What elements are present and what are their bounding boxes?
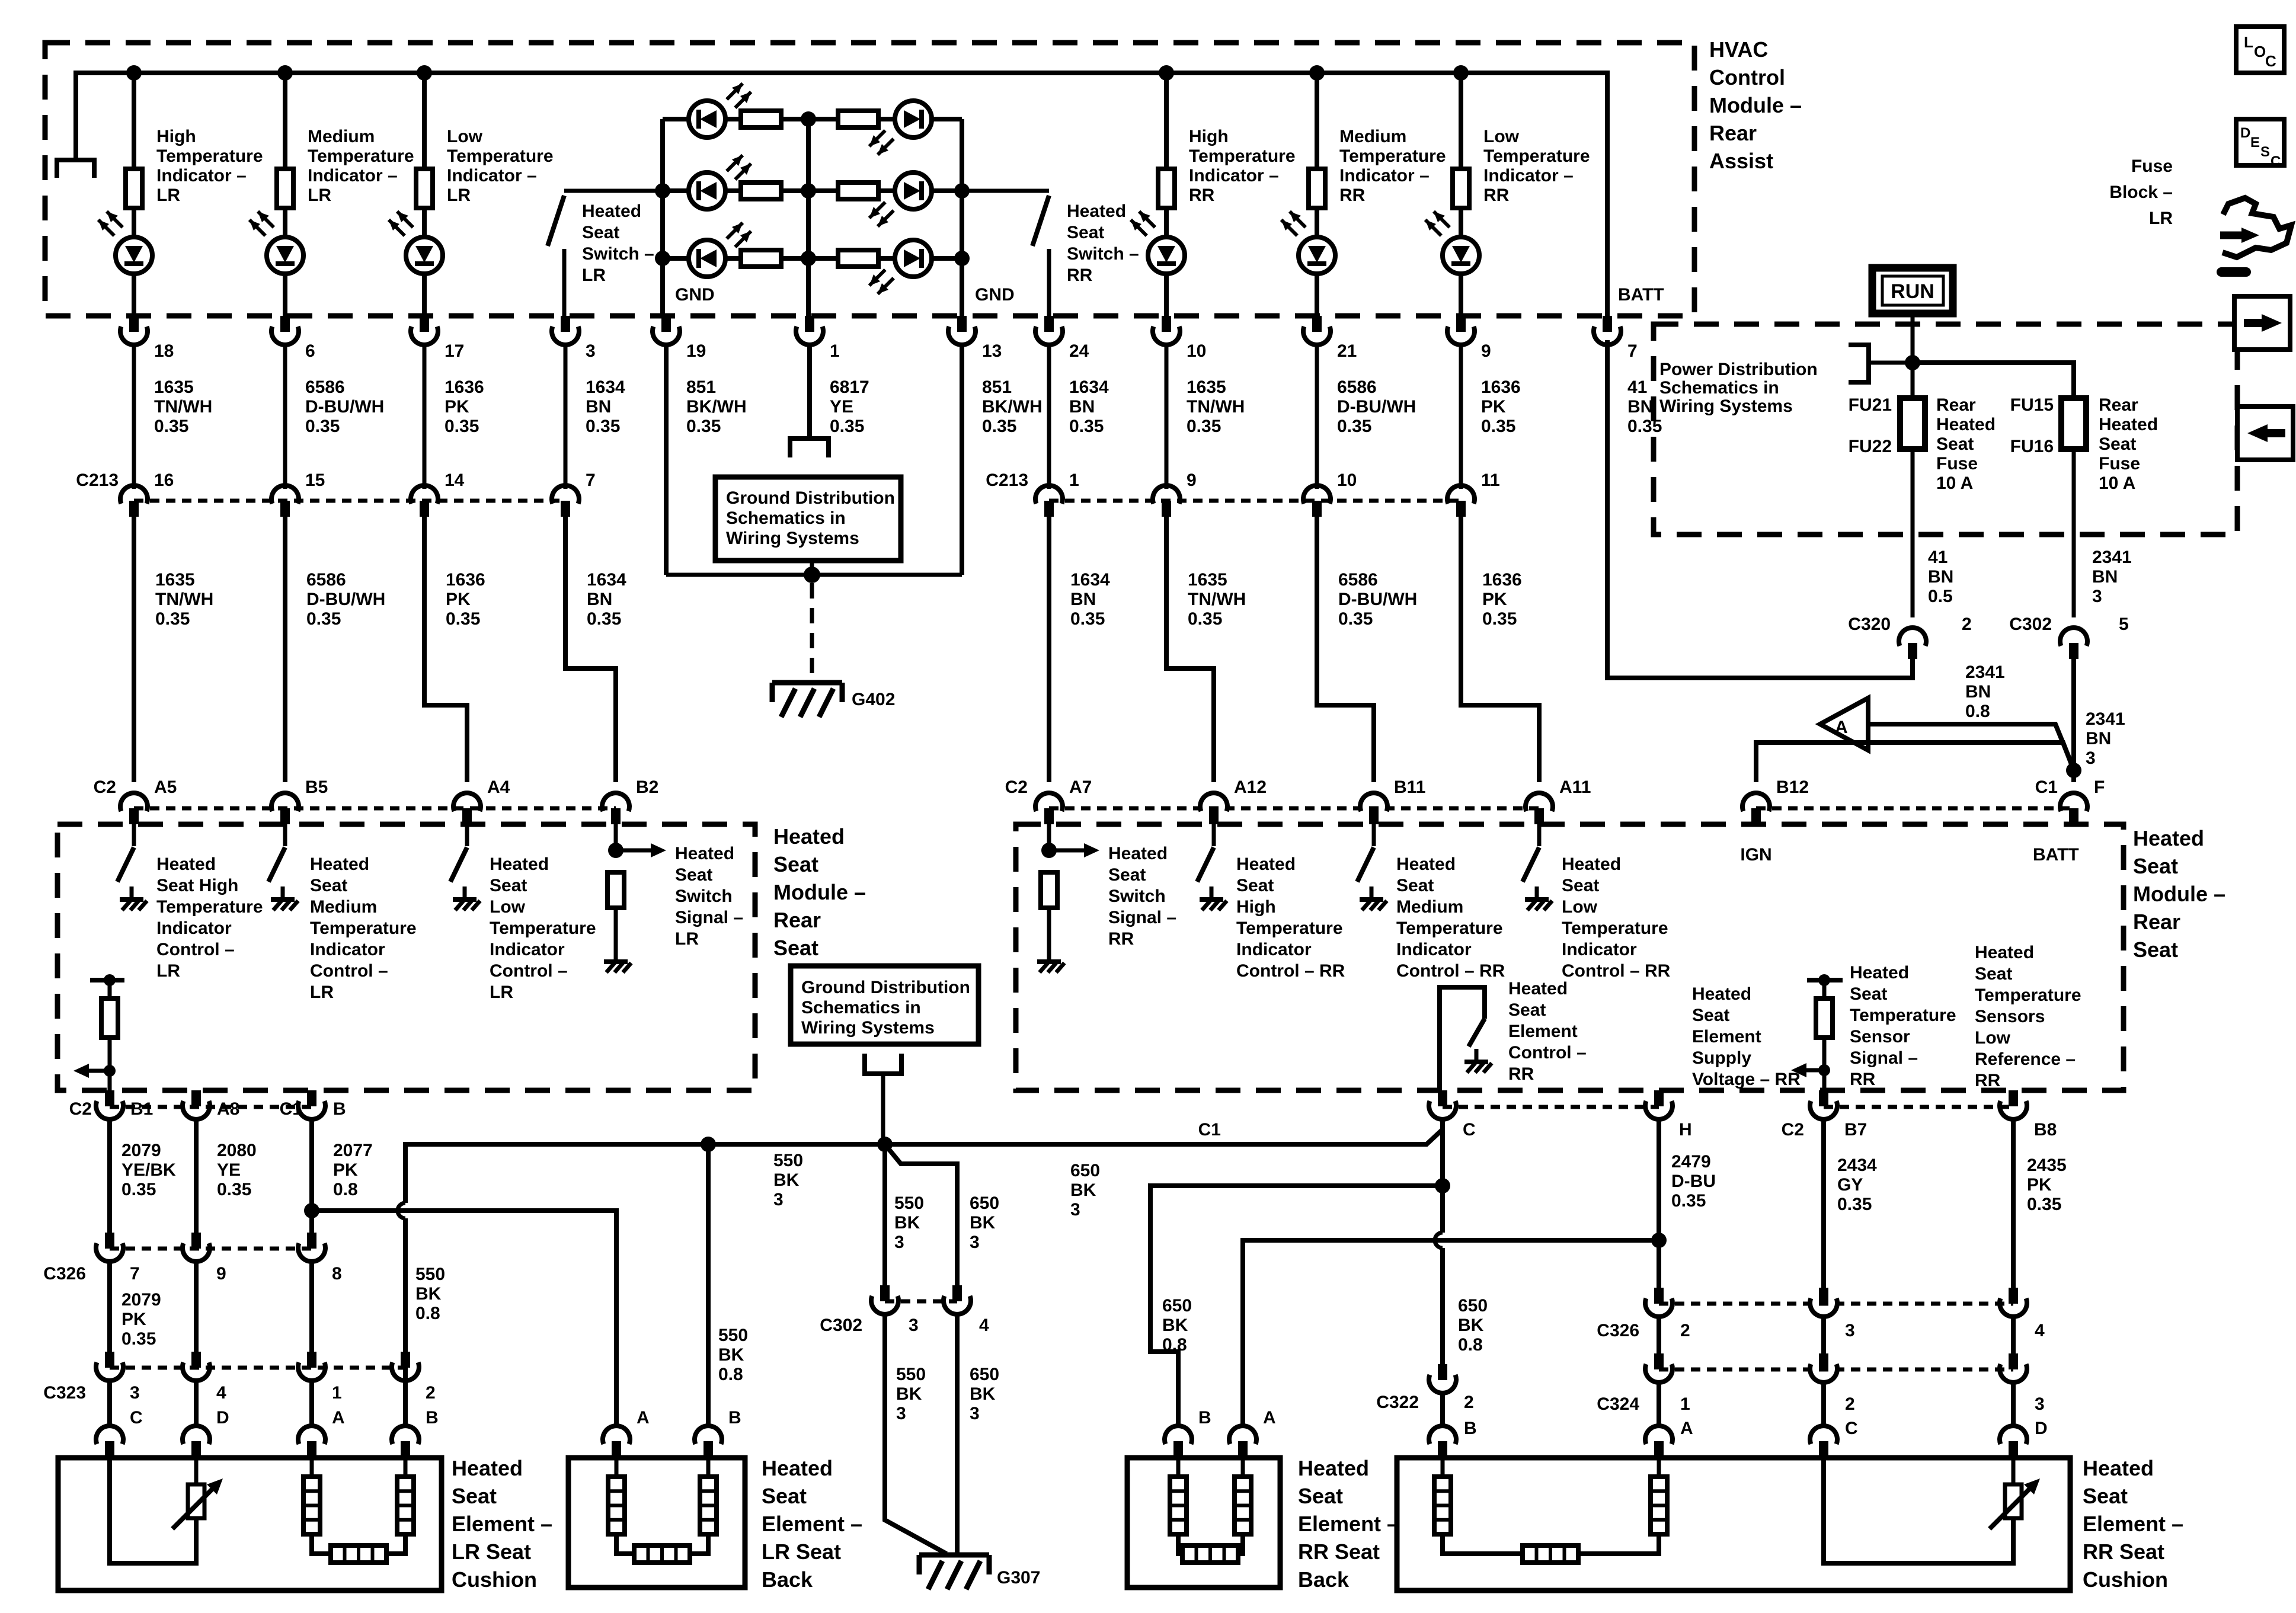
C323 pin 4 connector [191, 1352, 201, 1368]
svg-text:0.35: 0.35 [1187, 417, 1221, 436]
svg-text:550: 550 [718, 1326, 748, 1345]
wire 550 BK 3 to C302-3 [882, 1144, 887, 1285]
svg-text:PK: PK [2027, 1175, 2052, 1195]
svg-text:Schematics in: Schematics in [1659, 378, 1779, 398]
svg-text:650: 650 [1458, 1296, 1488, 1316]
Heated Seat High Temperature Indicator Control – RR switch [1212, 824, 1216, 846]
svg-text:2079: 2079 [121, 1141, 161, 1160]
wire 41 BN from pin7 to C320 [1607, 340, 1913, 678]
svg-text:1: 1 [332, 1383, 342, 1403]
wire RUN to fuses [1911, 313, 1915, 398]
Heated Seat Low Temperature Indicator Control – RR switch [1537, 824, 1542, 846]
svg-text:650: 650 [970, 1193, 999, 1213]
svg-text:17: 17 [445, 341, 464, 361]
svg-text:Heated: Heated [1067, 201, 1126, 221]
svg-text:Heated: Heated [582, 201, 641, 221]
LED row left y=436 [663, 256, 689, 261]
temp sensor chain left module [90, 978, 124, 982]
wire from C213 x=2465 to module connector x=2597 [1461, 517, 1539, 782]
svg-text:Seat: Seat [1067, 223, 1104, 242]
svg-text:Temperature: Temperature [1396, 918, 1503, 938]
svg-text:Cushion: Cushion [2083, 1567, 2168, 1592]
svg-text:A: A [637, 1408, 650, 1428]
svg-text:Wiring Systems: Wiring Systems [726, 529, 859, 548]
svg-text:Switch: Switch [675, 886, 733, 906]
svg-text:D: D [2240, 125, 2250, 141]
svg-text:Module –: Module – [773, 880, 866, 904]
svg-text:Fuse: Fuse [1936, 454, 1978, 473]
svg-text:Indicator: Indicator [1562, 940, 1637, 959]
svg-text:Indicator: Indicator [490, 940, 565, 959]
bottom output dotted link left [110, 1105, 312, 1109]
C320 pin 2 connector [1899, 628, 1926, 646]
module connector pin B5 [271, 793, 299, 811]
svg-text:550: 550 [894, 1193, 924, 1213]
element pin B connector [403, 1379, 408, 1428]
node bus junction x=1968 [1159, 65, 1174, 81]
C326 pin 9 connector [191, 1233, 201, 1249]
svg-text:BK/WH: BK/WH [982, 397, 1043, 417]
svg-text:LR: LR [156, 961, 180, 981]
svg-text:Seat: Seat [1975, 964, 2012, 984]
C326 pin 7 connector [105, 1233, 114, 1249]
bottom output dotted link right 1 [1443, 1105, 1659, 1109]
svg-text:13: 13 [982, 341, 1002, 361]
svg-text:3: 3 [586, 341, 596, 361]
svg-text:0.5: 0.5 [1928, 587, 1953, 606]
svg-text:0.35: 0.35 [587, 609, 621, 629]
svg-text:Low: Low [1975, 1028, 2011, 1048]
svg-text:Heated: Heated [452, 1456, 523, 1480]
svg-text:2080: 2080 [217, 1141, 257, 1160]
svg-text:Heated: Heated [1508, 979, 1568, 998]
svg-text:Medium: Medium [1396, 897, 1463, 917]
svg-text:0.35: 0.35 [982, 417, 1016, 436]
svg-text:BATT: BATT [1618, 285, 1664, 305]
svg-text:0.8: 0.8 [415, 1304, 440, 1323]
module output connector pin B8 [2009, 1090, 2018, 1106]
Heated Seat Medium Temperature Indicator Control – RR switch [1372, 824, 1376, 846]
Low Temperature Indicator – RR resistor [1459, 73, 1463, 169]
svg-text:Heated: Heated [156, 854, 216, 874]
svg-text:1635: 1635 [155, 570, 195, 590]
C322 pin 2 connector [1438, 1364, 1447, 1380]
svg-text:Indicator: Indicator [1396, 940, 1472, 959]
svg-text:A4: A4 [487, 777, 510, 797]
C2 dotted link right [1049, 806, 1539, 811]
module connector pin A4 [453, 793, 481, 811]
svg-text:C213: C213 [76, 471, 119, 490]
svg-text:2: 2 [1962, 615, 1972, 634]
Heated Seat Switch Signal – RR chain [1047, 824, 1051, 850]
heated seat switch LED array middle wire [806, 119, 811, 316]
svg-text:3: 3 [130, 1383, 140, 1403]
svg-text:Block –: Block – [2109, 183, 2173, 202]
svg-text:6817: 6817 [830, 377, 869, 397]
Power Distribution bracket [1849, 345, 1869, 382]
svg-text:Seat: Seat [1298, 1484, 1343, 1508]
svg-text:C: C [1845, 1419, 1858, 1438]
svg-text:BK: BK [773, 1170, 800, 1190]
svg-text:Indicator –: Indicator – [447, 166, 537, 185]
svg-text:BN: BN [1069, 397, 1095, 417]
svg-text:650: 650 [1070, 1161, 1100, 1180]
svg-text:PK: PK [333, 1160, 358, 1180]
svg-text:Signal –: Signal – [675, 908, 743, 927]
ground box bracket bottom [865, 1054, 901, 1074]
svg-text:BN: BN [587, 590, 612, 609]
svg-text:Heated: Heated [1236, 854, 1296, 874]
svg-text:BN: BN [1070, 590, 1096, 609]
wires C326 to C323 [107, 1260, 112, 1352]
svg-text:Seat: Seat [490, 876, 527, 895]
LED row left y=201 [663, 117, 689, 121]
C324 dashed link [1659, 1368, 2013, 1372]
svg-text:LR: LR [156, 185, 180, 205]
Medium Temperature Indicator – RR resistor [1315, 73, 1319, 169]
svg-text:Low: Low [490, 897, 526, 917]
svg-text:High: High [156, 127, 196, 146]
RR cushion thermistor and wiring [2005, 1484, 2022, 1518]
svg-text:Element –: Element – [1298, 1512, 1399, 1536]
svg-text:0.35: 0.35 [1837, 1195, 1872, 1214]
C302 pin 3 connector [880, 1285, 890, 1301]
wire A triangle to junction [1868, 724, 2074, 769]
svg-text:Switch –: Switch – [1067, 244, 1139, 264]
HVAC connector pin 6 [280, 316, 290, 332]
svg-text:PK: PK [445, 397, 469, 417]
svg-text:Low: Low [447, 127, 483, 146]
C213 pin 1 connector [1047, 343, 1051, 489]
svg-text:8: 8 [332, 1264, 342, 1284]
HVAC Control Module - Rear Assist dashed box [45, 43, 1694, 316]
svg-text:21: 21 [1337, 341, 1357, 361]
svg-text:10: 10 [1337, 471, 1357, 490]
svg-text:Supply: Supply [1692, 1048, 1751, 1068]
svg-text:650: 650 [1162, 1296, 1192, 1316]
svg-text:0.8: 0.8 [718, 1365, 743, 1384]
module output connector pin C [1438, 1090, 1447, 1106]
LR seat back element pin A connector [603, 1426, 630, 1444]
C302 dashed link bottom [885, 1300, 957, 1304]
RR seat back element pin B connector [1165, 1426, 1192, 1444]
svg-text:0.8: 0.8 [1458, 1335, 1483, 1355]
svg-text:Fuse: Fuse [2099, 454, 2140, 473]
svg-text:1: 1 [1069, 471, 1079, 490]
svg-text:RR Seat: RR Seat [2083, 1540, 2164, 1564]
svg-text:LR: LR [308, 185, 331, 205]
svg-text:Control –: Control – [156, 940, 235, 959]
svg-text:0.35: 0.35 [2027, 1195, 2061, 1214]
C2 dotted link left [134, 806, 616, 811]
svg-text:YE: YE [217, 1160, 241, 1180]
svg-text:Temperature: Temperature [1236, 918, 1343, 938]
Heated Seat Module – Rear Seat right dashed box [1016, 824, 2124, 1090]
svg-text:Element –: Element – [762, 1512, 862, 1536]
wire 2341 BN from C302-5 down [2071, 659, 2076, 782]
module connector pin B12 [1742, 793, 1770, 811]
svg-text:3: 3 [2092, 587, 2102, 606]
svg-text:Ground Distribution: Ground Distribution [801, 978, 970, 997]
svg-text:3: 3 [2086, 748, 2096, 768]
svg-text:G402: G402 [852, 690, 895, 709]
wire 550 BK 0.8 to LR seat back A [312, 1211, 616, 1428]
element pin D connector RR [2011, 1381, 2016, 1428]
svg-text:A11: A11 [1559, 777, 1591, 797]
svg-text:TN/WH: TN/WH [1187, 397, 1245, 417]
svg-text:B: B [728, 1408, 741, 1428]
svg-text:D: D [2035, 1419, 2048, 1438]
svg-text:Seat: Seat [1108, 865, 1146, 885]
svg-text:Seat: Seat [1562, 876, 1599, 895]
svg-text:Temperature: Temperature [156, 897, 263, 917]
wire from C213 x=954 to module connector x=1039 [565, 517, 616, 782]
svg-text:0.35: 0.35 [1671, 1191, 1706, 1211]
svg-text:LR Seat: LR Seat [762, 1540, 841, 1564]
node bus junction x=716 [417, 65, 432, 81]
LR seat back element pin B connector [695, 1426, 722, 1444]
svg-text:Medium: Medium [310, 897, 377, 917]
svg-text:BATT: BATT [2033, 845, 2079, 865]
svg-text:1: 1 [1680, 1394, 1690, 1414]
wire C302-3 to G307 [885, 1313, 946, 1554]
svg-text:0.35: 0.35 [155, 609, 190, 629]
svg-text:15: 15 [305, 471, 325, 490]
svg-text:Seat High: Seat High [156, 876, 238, 895]
svg-text:550: 550 [773, 1151, 803, 1170]
svg-text:D: D [216, 1408, 229, 1428]
fuse FU21/FU22 Rear Heated Seat Fuse 10 A [1900, 398, 1925, 449]
svg-text:Wiring Systems: Wiring Systems [1659, 396, 1793, 416]
svg-text:Temperature: Temperature [1850, 1006, 1956, 1025]
svg-text:5: 5 [2119, 615, 2129, 634]
svg-text:RR: RR [1483, 185, 1510, 205]
svg-text:A12: A12 [1234, 777, 1267, 797]
svg-text:2: 2 [1680, 1321, 1690, 1340]
C213 pin 16 connector [132, 343, 136, 489]
C326 right pin 3 connector [1819, 1288, 1828, 1304]
C213 pin 9 connector [1165, 343, 1169, 489]
svg-text:550: 550 [415, 1265, 445, 1284]
LR cushion heating element bars [303, 1477, 320, 1534]
wire from C213 x=226 to module connector x=226 [132, 517, 136, 782]
svg-text:TN/WH: TN/WH [1188, 590, 1246, 609]
svg-text:C1: C1 [1198, 1120, 1221, 1140]
svg-text:Seat: Seat [1850, 984, 1887, 1004]
node G402 junction [804, 567, 820, 583]
svg-text:C: C [2271, 153, 2281, 169]
svg-text:Seat: Seat [582, 223, 619, 242]
svg-text:YE: YE [830, 397, 853, 417]
svg-text:0.35: 0.35 [306, 609, 341, 629]
svg-text:2435: 2435 [2027, 1156, 2067, 1175]
element pin A connector RR [1657, 1381, 1661, 1428]
C213 pin 15 connector [283, 343, 287, 489]
svg-text:Heated: Heated [1108, 844, 1168, 863]
svg-text:0.35: 0.35 [1627, 417, 1662, 436]
svg-text:41: 41 [1627, 377, 1647, 397]
svg-text:Sensors: Sensors [1975, 1007, 2045, 1026]
svg-text:0.35: 0.35 [217, 1180, 251, 1199]
svg-text:FU16: FU16 [2010, 437, 2054, 456]
svg-text:Seat: Seat [1236, 876, 1274, 895]
top supply bus wire [76, 73, 1607, 316]
svg-text:Seat: Seat [2099, 434, 2136, 454]
svg-text:6586: 6586 [306, 570, 346, 590]
svg-text:S: S [2260, 144, 2270, 160]
svg-text:B11: B11 [1394, 777, 1425, 797]
svg-text:0.8: 0.8 [333, 1180, 358, 1199]
svg-text:B7: B7 [1844, 1120, 1867, 1140]
svg-text:Heated: Heated [310, 854, 369, 874]
svg-text:Low: Low [1483, 127, 1520, 146]
svg-text:2341: 2341 [2086, 709, 2125, 729]
C213 dashed link left [134, 499, 565, 503]
svg-text:Seat: Seat [2083, 1484, 2128, 1508]
C326 pin 8 connector [307, 1233, 316, 1249]
svg-text:Schematics in: Schematics in [726, 508, 846, 528]
svg-text:Seat: Seat [1508, 1000, 1546, 1020]
svg-text:2079: 2079 [121, 1290, 161, 1310]
C323 pin 1 connector [307, 1352, 316, 1368]
svg-text:A: A [1835, 718, 1848, 737]
wire junction to IGN B12 [1756, 743, 2074, 782]
svg-text:0.35: 0.35 [830, 417, 864, 436]
svg-text:2: 2 [426, 1383, 436, 1403]
svg-text:Heated: Heated [1396, 854, 1456, 874]
HVAC connector pin 18 [129, 316, 139, 332]
svg-text:Indicator –: Indicator – [1339, 166, 1430, 185]
svg-text:9: 9 [1187, 471, 1197, 490]
svg-text:Indicator: Indicator [156, 918, 232, 938]
svg-text:BN: BN [1928, 567, 1953, 587]
svg-text:Element: Element [1508, 1022, 1578, 1041]
wire ground box to bus [881, 1074, 885, 1144]
svg-text:3: 3 [909, 1316, 919, 1335]
HVAC connector pin 9 [1456, 316, 1466, 332]
svg-text:HVAC: HVAC [1709, 37, 1768, 62]
Heated Seat Switch – LR [564, 189, 663, 193]
svg-text:Heated: Heated [1298, 1456, 1369, 1480]
RR seat back element pin A connector [1229, 1426, 1256, 1444]
ground G307 [919, 1553, 989, 1558]
svg-text:650: 650 [970, 1365, 999, 1384]
svg-text:Element –: Element – [452, 1512, 552, 1536]
wire 2080 YE A8 down [194, 1117, 199, 1233]
wire 851 BK/WH pin13 to ground bus [960, 343, 964, 575]
svg-text:PK: PK [121, 1310, 146, 1329]
svg-text:Temperature: Temperature [308, 146, 414, 166]
svg-text:RR: RR [1850, 1070, 1876, 1089]
svg-text:Switch: Switch [1108, 886, 1166, 906]
left arrow icon box [2237, 407, 2293, 460]
svg-text:Temperature: Temperature [1189, 146, 1296, 166]
Heated Seat Switch Signal – LR chain [614, 824, 618, 850]
svg-text:2341: 2341 [2092, 548, 2132, 567]
Heated Seat Medium Temperature Indicator Control – LR switch [283, 824, 287, 846]
svg-text:Heated: Heated [762, 1456, 833, 1480]
svg-text:LR: LR [582, 265, 606, 285]
Low Temperature Indicator – LR resistor [422, 73, 427, 169]
svg-text:0.35: 0.35 [1188, 609, 1222, 629]
svg-text:Indicator –: Indicator – [1189, 166, 1279, 185]
wire 851 BK/WH pin19 to ground bus [664, 343, 669, 575]
Fuse Block – LR dashed box [1654, 324, 2237, 535]
svg-text:D-BU/WH: D-BU/WH [1338, 590, 1417, 609]
ground bus 550/650 BK [403, 1218, 408, 1428]
svg-text:851: 851 [686, 377, 716, 397]
C323 dashed link [110, 1366, 405, 1370]
node bus junction x=2222 [1309, 65, 1325, 81]
svg-text:Heated: Heated [1562, 854, 1621, 874]
svg-text:Seat: Seat [1692, 1006, 1729, 1025]
bus header symbol [57, 160, 94, 178]
wire LR seat back B down [706, 1144, 711, 1428]
svg-text:Assist: Assist [1709, 149, 1773, 173]
svg-text:16: 16 [154, 471, 174, 490]
HVAC connector pin 17 [420, 316, 429, 332]
bottom output dotted link right 2 [1824, 1105, 2013, 1109]
LR cushion thermistor and wiring [188, 1484, 204, 1518]
svg-text:18: 18 [154, 341, 174, 361]
RR cushion heating element bars [1434, 1477, 1451, 1534]
Heated Seat High Temperature Indicator Control – LR switch [132, 824, 136, 846]
svg-text:C1: C1 [2035, 777, 2058, 797]
right arrow icon box [2234, 296, 2290, 350]
LED row right y=322 [808, 188, 838, 193]
svg-text:FU15: FU15 [2010, 395, 2054, 415]
svg-text:GY: GY [1837, 1175, 1863, 1195]
svg-text:Heated: Heated [1975, 943, 2034, 962]
module connector pin F [2060, 793, 2087, 811]
svg-text:Indicator –: Indicator – [308, 166, 398, 185]
svg-text:0.35: 0.35 [154, 417, 188, 436]
svg-text:0.35: 0.35 [686, 417, 721, 436]
svg-text:Module –: Module – [1709, 93, 1802, 117]
svg-text:Control – RR: Control – RR [1562, 961, 1671, 981]
svg-text:A5: A5 [154, 777, 177, 797]
node bus junction x=481 [277, 65, 293, 81]
svg-text:Switch –: Switch – [582, 244, 654, 264]
HVAC connector pin 3 [561, 316, 570, 332]
svg-text:B: B [426, 1408, 439, 1428]
wire FU15 to C302 [2072, 449, 2076, 617]
svg-text:Seat: Seat [310, 876, 347, 895]
ground bus horizontal to G402 [666, 573, 962, 577]
svg-text:Indicator –: Indicator – [156, 166, 247, 185]
svg-text:Cushion: Cushion [452, 1567, 537, 1592]
svg-text:3: 3 [894, 1233, 904, 1252]
Medium Temperature Indicator – LR LED [283, 208, 287, 237]
svg-text:1634: 1634 [1070, 570, 1110, 590]
svg-text:24: 24 [1069, 341, 1089, 361]
svg-text:Reference –: Reference – [1975, 1049, 2076, 1069]
svg-text:0.35: 0.35 [1069, 417, 1104, 436]
Heated Seat Module left arrow out [87, 1069, 110, 1073]
fuse details hand icon [2220, 232, 2244, 239]
svg-text:3: 3 [1070, 1200, 1080, 1220]
svg-text:D-BU/WH: D-BU/WH [1337, 397, 1416, 417]
HVAC connector pin 24 [1044, 316, 1054, 332]
svg-text:C324: C324 [1597, 1394, 1639, 1414]
svg-text:RR: RR [1189, 185, 1215, 205]
svg-text:BK/WH: BK/WH [686, 397, 747, 417]
fuse FU15/FU16 Rear Heated Seat Fuse 10 A [2061, 398, 2086, 449]
module output connector pin H [1654, 1090, 1664, 1106]
svg-text:4: 4 [2035, 1321, 2045, 1340]
Medium Temperature Indicator – LR resistor [283, 73, 287, 169]
svg-text:4: 4 [216, 1383, 226, 1403]
